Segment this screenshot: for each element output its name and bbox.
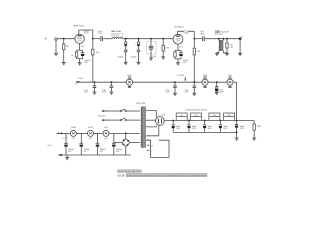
wire plate V1 up and over — [79, 30, 93, 39]
ground dashed cap — [149, 58, 153, 60]
svg-text:0.68μF: 0.68μF — [131, 56, 138, 58]
ground bleeder — [252, 138, 256, 140]
svg-text:2.6mA: 2.6mA — [78, 77, 84, 80]
svg-text:220k: 220k — [257, 126, 261, 128]
wire heater line A — [56, 132, 59, 134]
svg-text:IN: IN — [44, 38, 47, 41]
capacitor cathode bypass C2 — [82, 50, 84, 52]
wire switch to transformer upper — [126, 110, 140, 112]
capacitor filter 33μF at 189.0 — [188, 120, 190, 122]
ground drop — [124, 62, 128, 64]
svg-text:220: 220 — [185, 32, 188, 34]
resistor cathode Rk1 — [76, 50, 78, 52]
svg-text:1Ω 1W: 1Ω 1W — [62, 138, 68, 140]
ground cathode V2 — [176, 63, 180, 65]
svg-text:(1/2): (1/2) — [78, 40, 82, 42]
svg-text:SRPP 6DJ8: SRPP 6DJ8 — [73, 26, 85, 28]
resistor grid leak R1 — [63, 39, 65, 44]
wire AC lower to switch — [108, 119, 121, 121]
wire AC upper to switch — [108, 110, 121, 112]
wire heater line B — [60, 154, 132, 156]
ground input shield — [54, 53, 58, 55]
resistor plate load R2 33k — [92, 39, 94, 50]
capacitor rail bypass — [174, 81, 176, 83]
wire OPT secondary bottom — [223, 51, 227, 53]
AC line lower arrow — [101, 119, 104, 121]
tube V1 6DJ8 — [75, 34, 84, 43]
ground heater — [66, 155, 68, 157]
wire plate node to coupling cap — [93, 38, 100, 40]
resistor load R5 — [226, 38, 228, 40]
inductor choke L1 — [112, 38, 122, 39]
capacitor output C7 1uF — [203, 36, 205, 41]
transformer OPT T1 — [218, 38, 220, 40]
svg-text:330: 330 — [195, 115, 198, 117]
svg-text:DC180V: DC180V — [177, 75, 185, 77]
ground R3 — [161, 57, 165, 59]
svg-text:6DJ8(2/2): 6DJ8(2/2) — [174, 27, 183, 29]
wire cap to OPT — [205, 38, 240, 40]
wire V2 plate to output cap — [194, 38, 202, 40]
wire lower tap to rectifier — [146, 125, 156, 127]
capacitor heater filter 0 1000uF — [65, 133, 67, 143]
svg-text:470k: 470k — [165, 47, 169, 49]
svg-text:6X4: 6X4 — [104, 127, 107, 129]
input jack J1 — [55, 38, 58, 41]
resistor filter series 3 — [224, 113, 235, 117]
capacitor filter 33μF at 173.2 — [172, 120, 174, 122]
capacitor filter last — [236, 121, 238, 125]
svg-text:(2/2): (2/2) — [176, 41, 180, 43]
capacitor rail bypass — [193, 81, 195, 83]
node cathode split V1 — [77, 49, 83, 51]
wire rail down right side — [236, 82, 238, 120]
wire OPT primary bottom to ground — [217, 51, 219, 54]
label 220 plate stopper — [84, 31, 88, 33]
capacitor filter 33μF at 204.6 — [204, 120, 206, 122]
wire switch to transformer lower — [126, 119, 140, 121]
wire output to ground — [239, 39, 241, 54]
svg-text:10K:10K: 10K:10K — [112, 35, 120, 37]
wire choke to tube2 — [123, 38, 173, 40]
switch SW1b — [120, 119, 122, 121]
label OPT (two lines) — [215, 31, 217, 33]
wire rectifier output B+ — [164, 120, 254, 122]
capacitor filter 33μF at 220.4 — [220, 120, 222, 122]
resistor bleeder 220k — [253, 121, 255, 125]
cathode wire V1 — [79, 44, 81, 51]
tube V2 6DJ8 — [173, 34, 183, 44]
resistor cathode Rk2 — [174, 50, 176, 52]
capacitor heater filter 2 1000uF — [97, 133, 99, 143]
ground load — [225, 53, 229, 55]
capacitor rail 216.7 — [216, 81, 218, 83]
svg-text:1M: 1M — [66, 46, 69, 48]
svg-text:20K : 8Ω: 20K : 8Ω — [215, 34, 223, 36]
capacitor rail bypass 0 — [94, 81, 96, 83]
output terminal — [239, 37, 242, 40]
wire R1 to ground — [63, 50, 65, 63]
bridge rectifier D1 — [125, 133, 127, 135]
wire plate V2 up and over — [178, 31, 195, 34]
cathode V2 — [177, 44, 179, 50]
svg-text:0.68μF: 0.68μF — [117, 56, 124, 58]
capacitor divider drop C4 — [138, 38, 140, 40]
svg-text:PMC-95M: PMC-95M — [136, 103, 145, 105]
svg-text:330: 330 — [213, 115, 216, 117]
ground OPT primary — [215, 53, 219, 55]
capacitor divider drop C3 — [125, 38, 127, 40]
svg-text:6DJ8: 6DJ8 — [71, 127, 75, 129]
label 220 stage2 — [184, 31, 188, 33]
svg-text:56: 56 — [71, 55, 73, 57]
wire plate down to output line — [193, 31, 195, 38]
svg-text:2W: 2W — [230, 47, 233, 49]
svg-text:AC100V: AC100V — [98, 115, 106, 118]
wire HV tap to rectifier plate — [146, 111, 156, 118]
svg-text:1.5k: 1.5k — [81, 46, 85, 48]
capacitor cathode bypass C6 — [180, 50, 182, 52]
wire cathode join — [77, 58, 83, 60]
svg-text:KA-8-54P: KA-8-54P — [221, 31, 230, 34]
svg-text:1.5k: 1.5k — [179, 46, 183, 48]
wire B rail — [77, 81, 127, 83]
resistor plate load R4 — [193, 39, 195, 49]
tap arrows left — [146, 139, 148, 141]
capacitor heater filter 1 1000uF — [80, 133, 82, 143]
svg-text:6DJ8: 6DJ8 — [88, 127, 92, 129]
svg-text:33k: 33k — [197, 51, 200, 53]
resistor filter series 1 — [191, 113, 202, 117]
wire mid tap — [146, 119, 155, 121]
svg-text:33k: 33k — [96, 52, 99, 54]
wire input to tube1 grid — [58, 38, 76, 40]
capacitor heater filter 3 1000uF — [113, 133, 115, 143]
ground R1 — [62, 63, 66, 65]
ground cathode V1 — [78, 63, 82, 65]
switch SW1a — [120, 110, 122, 112]
wire cap to choke — [103, 38, 112, 40]
transformer PT T2 — [140, 107, 143, 147]
wire rectifier cathode return — [146, 125, 159, 136]
ground drop — [137, 62, 141, 64]
wire return line — [173, 131, 236, 133]
ground output — [238, 53, 242, 55]
svg-text:SEL H-20: SEL H-20 — [111, 31, 121, 33]
svg-text:B1: B1 — [75, 83, 77, 85]
capacitor coupling C1 0.1uF — [101, 36, 103, 41]
capacitor rail bypass 1 — [111, 81, 113, 83]
caption line 1 — [118, 170, 120, 172]
capacitor optional C5 (dashed box) — [150, 38, 152, 40]
AC line upper arrow — [101, 110, 104, 112]
wire secondary loop box — [146, 140, 169, 157]
resistor grid R3 470k — [162, 38, 164, 40]
svg-text:5H150mA 330 1W 330 1W: 5H150mA 330 1W 330 1W — [185, 109, 207, 112]
resistor filter series 0 — [176, 113, 187, 117]
svg-text:220: 220 — [85, 32, 88, 34]
svg-text:6DJ8: 6DJ8 — [117, 174, 124, 178]
resistor filter series 2 — [209, 113, 220, 117]
wire jack shield drop — [55, 41, 57, 53]
